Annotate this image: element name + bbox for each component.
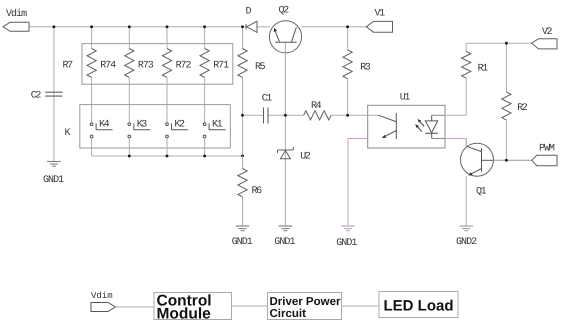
svg-text:K4: K4 bbox=[99, 120, 110, 131]
svg-text:K1: K1 bbox=[212, 120, 223, 131]
svg-text:R2: R2 bbox=[517, 103, 528, 114]
svg-text:R7: R7 bbox=[63, 60, 74, 71]
svg-text:GND1: GND1 bbox=[274, 237, 295, 248]
svg-text:U2: U2 bbox=[300, 152, 311, 163]
svg-text:GND1: GND1 bbox=[336, 238, 357, 249]
svg-text:Q1: Q1 bbox=[476, 187, 487, 198]
svg-text:GND1: GND1 bbox=[43, 175, 64, 186]
svg-text:R1: R1 bbox=[478, 64, 489, 75]
svg-text:C1: C1 bbox=[262, 94, 273, 105]
svg-text:Vdim: Vdim bbox=[91, 291, 113, 301]
svg-text:R71: R71 bbox=[213, 60, 229, 71]
svg-text:GND1: GND1 bbox=[232, 237, 253, 248]
svg-text:R72: R72 bbox=[176, 60, 192, 71]
svg-text:R6: R6 bbox=[252, 186, 263, 197]
svg-text:Q2: Q2 bbox=[279, 6, 290, 17]
svg-text:Module: Module bbox=[157, 305, 212, 322]
svg-text:Circuit: Circuit bbox=[270, 308, 307, 320]
svg-text:D: D bbox=[246, 7, 252, 18]
svg-text:R4: R4 bbox=[311, 101, 322, 112]
svg-text:GND2: GND2 bbox=[456, 237, 477, 248]
svg-text:V2: V2 bbox=[542, 27, 553, 38]
svg-text:R3: R3 bbox=[360, 63, 371, 74]
svg-text:Vdim: Vdim bbox=[6, 8, 27, 20]
svg-text:C2: C2 bbox=[31, 91, 42, 102]
svg-text:PWM: PWM bbox=[539, 143, 555, 154]
svg-text:LED Load: LED Load bbox=[384, 297, 454, 314]
svg-text:K2: K2 bbox=[174, 120, 185, 131]
svg-text:R74: R74 bbox=[100, 60, 116, 71]
svg-text:V1: V1 bbox=[375, 9, 386, 20]
svg-text:Driver Power: Driver Power bbox=[270, 296, 341, 308]
svg-text:U1: U1 bbox=[400, 93, 411, 104]
svg-text:R5: R5 bbox=[255, 62, 266, 73]
svg-text:K3: K3 bbox=[137, 120, 148, 131]
svg-text:R73: R73 bbox=[138, 60, 154, 71]
svg-text:K: K bbox=[65, 128, 71, 139]
